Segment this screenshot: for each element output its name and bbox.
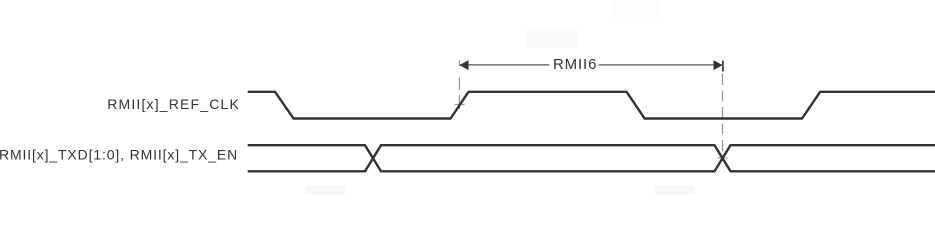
svg-text:RMII6: RMII6 — [553, 56, 597, 73]
svg-text:RMII[x]_REF_CLK: RMII[x]_REF_CLK — [107, 96, 240, 112]
right arrowhead — [714, 60, 723, 70]
data bus bottom/cross path — [248, 145, 935, 171]
dashed reference line right (at data transition) — [722, 74, 724, 158]
tick at data crossover midpoint — [718, 157, 728, 159]
tick at clock edge midpoint — [455, 104, 465, 106]
data bus top/cross path — [248, 145, 935, 171]
right dimension terminator bar — [722, 61, 724, 72]
dashed reference line left (at clock rising edge) — [458, 60, 460, 109]
faint artifact rect top — [612, 0, 660, 19]
faint artifact rect bottom right — [655, 185, 695, 195]
svg-text:RMII[x]_TXD[1:0], RMII[x]_TX_E: RMII[x]_TXD[1:0], RMII[x]_TX_EN — [0, 146, 238, 162]
faint artifact rect bottom left — [305, 185, 345, 195]
dimension shaft left segment — [460, 64, 549, 66]
left arrowhead — [460, 60, 469, 70]
faint artifact rect mid — [527, 29, 578, 48]
clock waveform RMII[x]_REF_CLK — [248, 92, 935, 119]
dimension shaft right segment — [599, 64, 723, 66]
